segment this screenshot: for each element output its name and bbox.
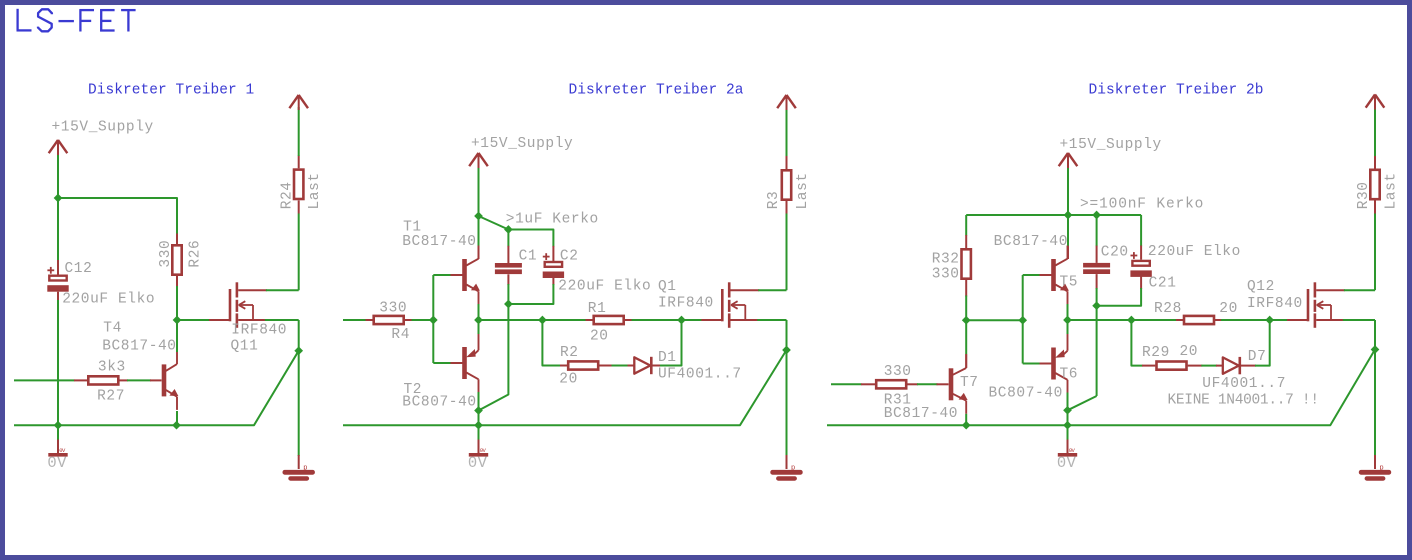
svg-text:20: 20	[1180, 344, 1199, 360]
svg-text:R4: R4	[391, 327, 410, 343]
svg-text:20: 20	[559, 372, 578, 388]
svg-text:20: 20	[590, 329, 609, 345]
svg-text:T6: T6	[1060, 367, 1079, 383]
svg-text:330: 330	[379, 301, 407, 317]
svg-text:Diskreter Treiber 2b: Diskreter Treiber 2b	[1089, 83, 1264, 99]
svg-text:R3: R3	[766, 191, 782, 210]
svg-text:Diskreter Treiber 2a: Diskreter Treiber 2a	[569, 83, 744, 99]
svg-text:Diskreter Treiber 1: Diskreter Treiber 1	[88, 83, 254, 99]
svg-text:330: 330	[158, 240, 174, 268]
svg-text:R30: R30	[1356, 181, 1372, 209]
svg-text:0V: 0V	[468, 454, 488, 472]
svg-text:C20: C20	[1101, 244, 1129, 260]
svg-text:R26: R26	[188, 240, 204, 268]
svg-text:R32: R32	[932, 252, 960, 268]
svg-text:+15V_Supply: +15V_Supply	[1060, 137, 1162, 153]
svg-text:R29: R29	[1142, 345, 1170, 361]
svg-text:+15V_Supply: +15V_Supply	[471, 136, 573, 152]
svg-text:R2: R2	[560, 345, 579, 361]
svg-text:BC817-40: BC817-40	[884, 406, 958, 422]
svg-text:R28: R28	[1154, 301, 1182, 317]
svg-text:Last: Last	[795, 172, 811, 209]
svg-text:Q12: Q12	[1247, 279, 1275, 295]
svg-text:0V: 0V	[47, 454, 67, 472]
svg-text:Q1: Q1	[658, 279, 677, 295]
svg-text:UF4001..7: UF4001..7	[658, 367, 742, 383]
svg-text:>1uF Kerko: >1uF Kerko	[506, 212, 599, 228]
svg-text:IRF840: IRF840	[231, 323, 287, 339]
svg-text:Last: Last	[307, 172, 323, 209]
svg-text:R27: R27	[97, 389, 125, 405]
svg-text:T5: T5	[1060, 275, 1079, 291]
svg-text:IRF840: IRF840	[1247, 296, 1303, 312]
svg-text:R1: R1	[588, 301, 607, 317]
svg-text:Last: Last	[1384, 172, 1400, 209]
svg-text:C1: C1	[519, 249, 538, 265]
svg-text:3k3: 3k3	[98, 359, 126, 375]
svg-text:330: 330	[932, 267, 960, 283]
svg-text:p: p	[303, 464, 307, 472]
svg-text:C2: C2	[560, 249, 579, 265]
svg-text:0V: 0V	[1057, 454, 1077, 472]
svg-text:C12: C12	[65, 261, 93, 277]
svg-text:+15V_Supply: +15V_Supply	[52, 119, 154, 135]
svg-text:UF4001..7: UF4001..7	[1202, 376, 1286, 392]
svg-text:KEINE 1N4001..7 !!: KEINE 1N4001..7 !!	[1168, 393, 1319, 409]
svg-text:330: 330	[884, 364, 912, 380]
svg-text:C21: C21	[1149, 276, 1177, 292]
svg-text:p: p	[791, 464, 795, 472]
svg-text:BC807-40: BC807-40	[989, 386, 1063, 402]
svg-text:R24: R24	[280, 181, 296, 209]
svg-text:Q11: Q11	[231, 339, 259, 355]
svg-text:D7: D7	[1248, 349, 1267, 365]
svg-text:IRF840: IRF840	[658, 296, 714, 312]
svg-text:>=100nF Kerko: >=100nF Kerko	[1080, 197, 1204, 213]
svg-text:BC817-40: BC817-40	[102, 339, 176, 355]
svg-text:BC807-40: BC807-40	[402, 395, 476, 411]
svg-text:220uF Elko: 220uF Elko	[1148, 244, 1241, 260]
svg-text:220uF Elko: 220uF Elko	[62, 291, 155, 307]
svg-text:T4: T4	[103, 321, 122, 337]
svg-text:p: p	[1380, 464, 1384, 472]
svg-text:20: 20	[1219, 301, 1238, 317]
svg-text:220uF Elko: 220uF Elko	[558, 279, 651, 295]
svg-text:BC817-40: BC817-40	[402, 234, 476, 250]
svg-text:BC817-40: BC817-40	[994, 234, 1068, 250]
svg-text:T7: T7	[960, 375, 979, 391]
svg-text:D1: D1	[658, 350, 677, 366]
